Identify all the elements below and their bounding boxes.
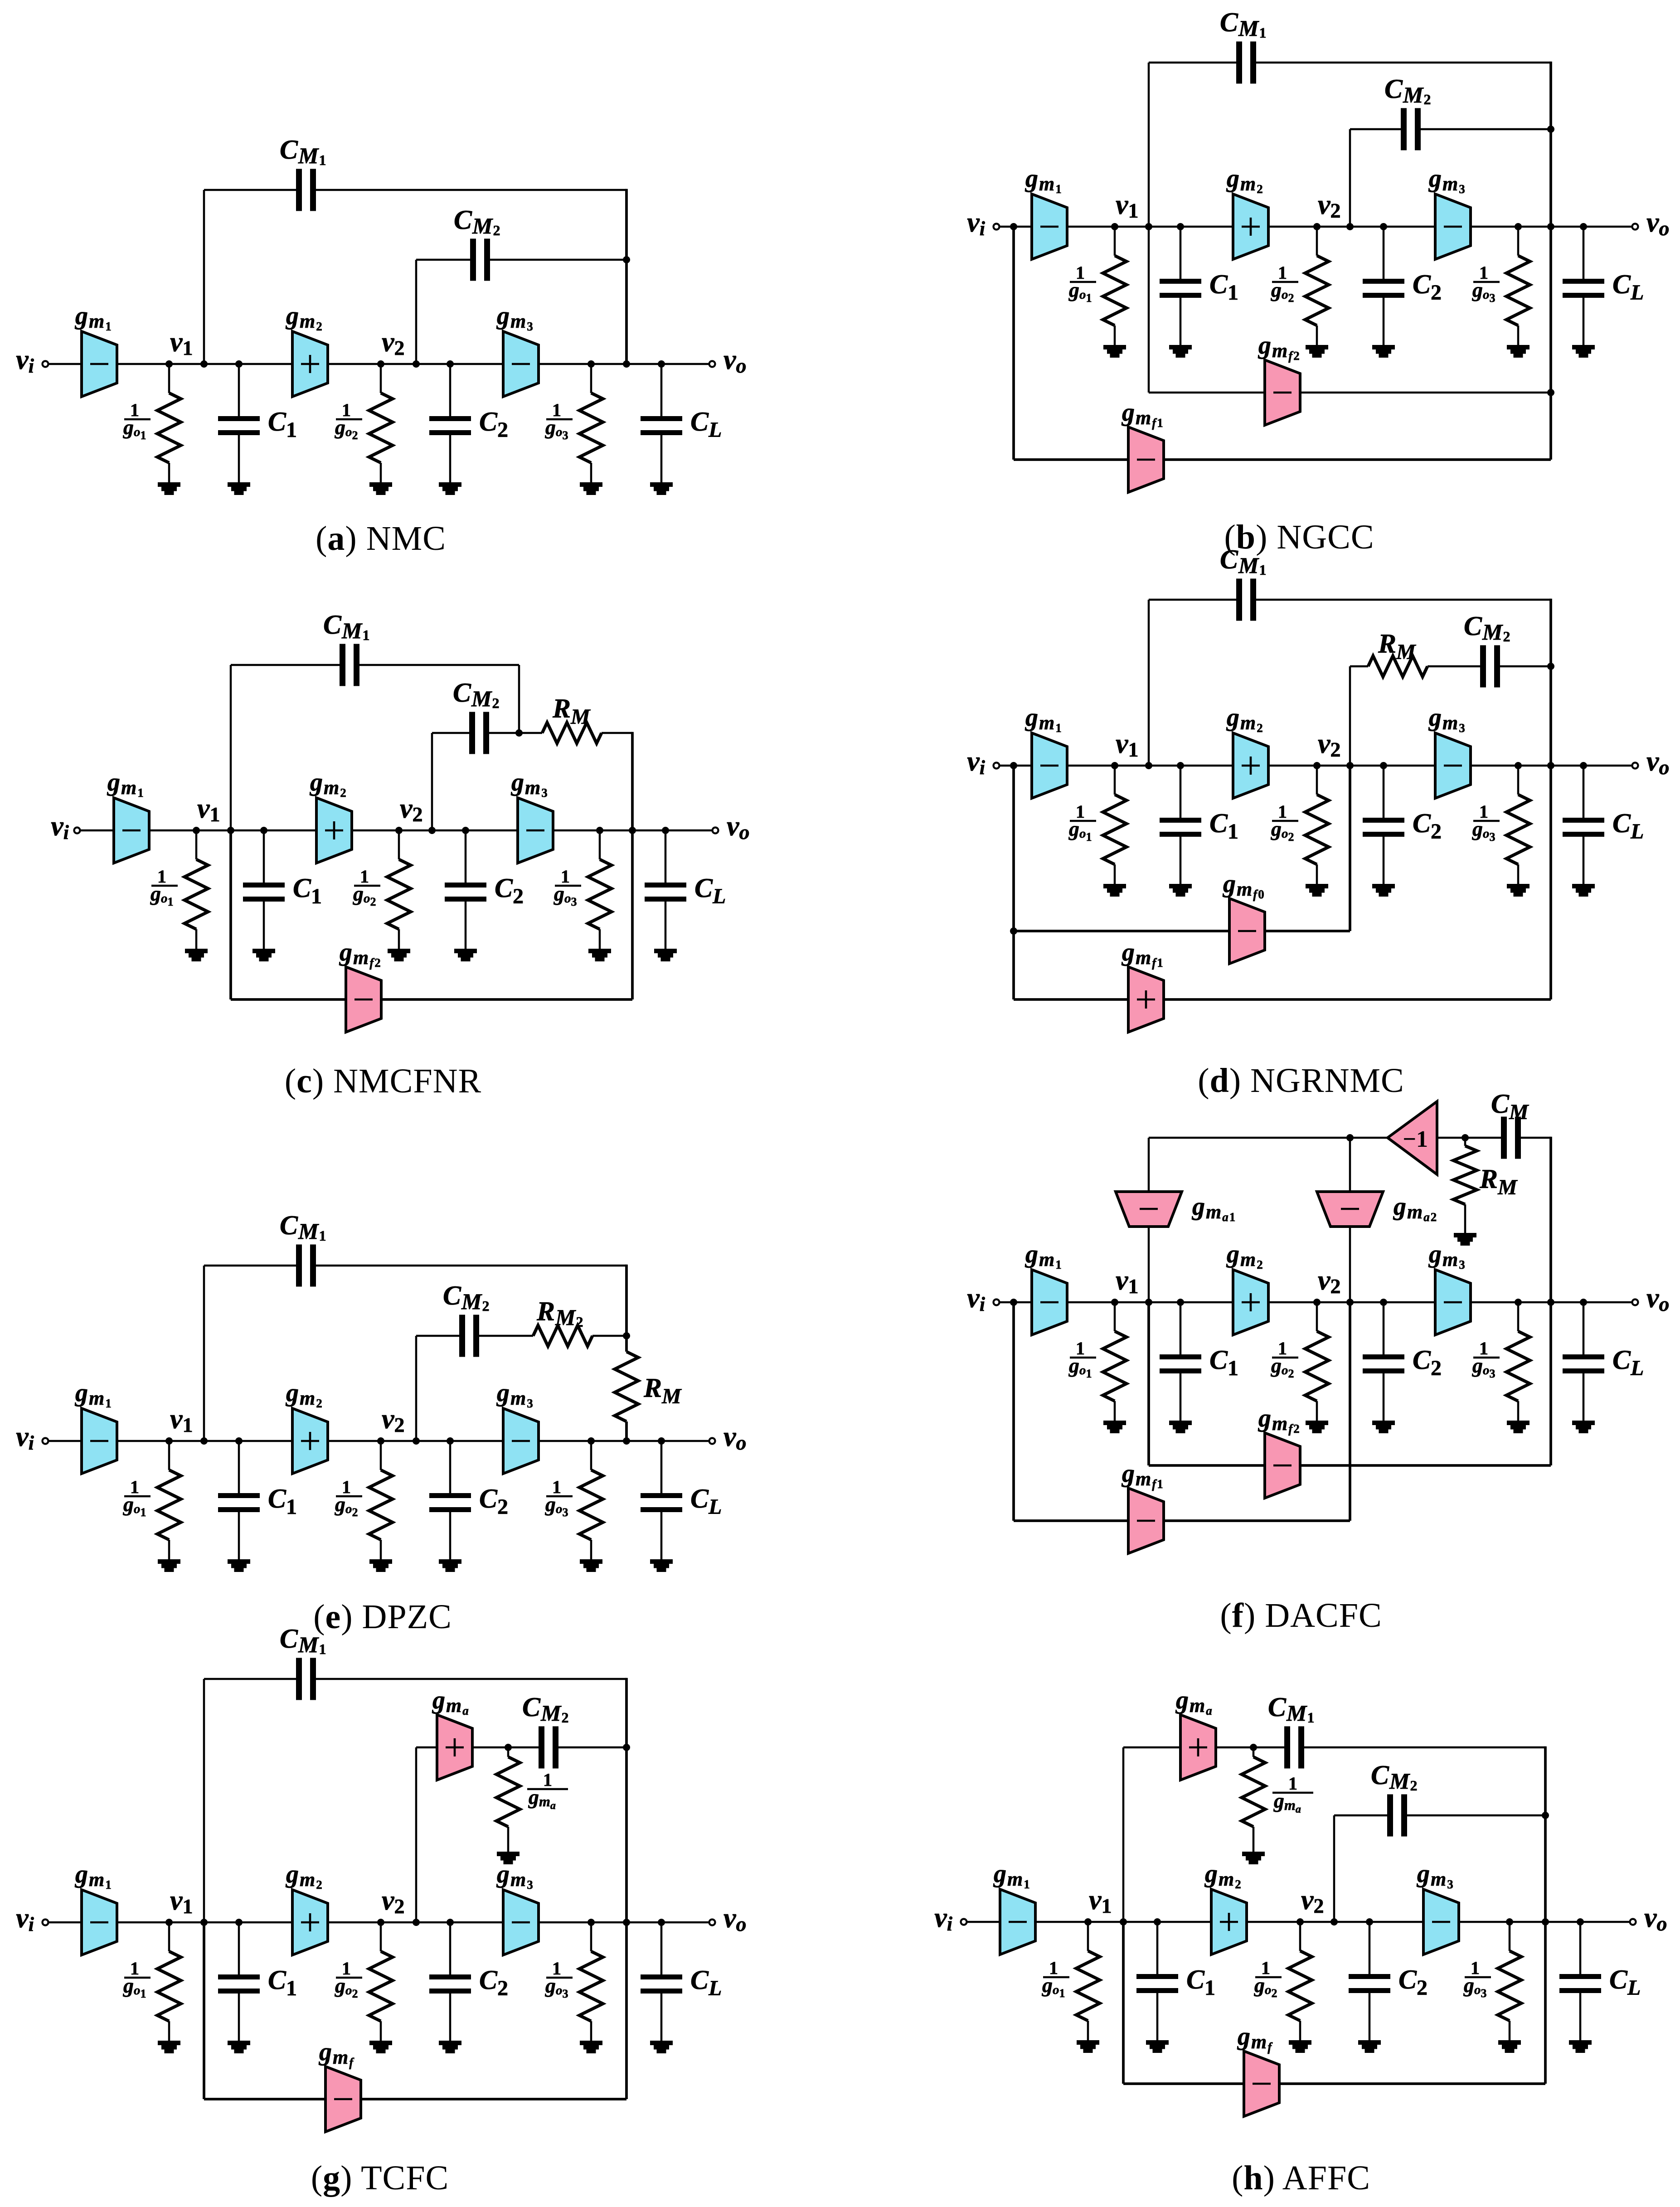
panel f: op-amp gm1	[1032, 1270, 1067, 1335]
panel b: resistor 1/go2	[1305, 227, 1329, 358]
panel e: label RM	[643, 1373, 682, 1408]
panel d: resistor 1/go1	[1103, 766, 1126, 897]
panel a: label C2	[479, 407, 508, 442]
panel g: node v2	[377, 1919, 384, 1926]
panel a: CM2 wire left	[416, 259, 470, 261]
panel g: capacitor C1	[218, 1922, 260, 2053]
panel a: CM2 wire right	[490, 259, 626, 261]
panel c: label CM2	[453, 678, 500, 711]
panel f: junction gma2 stub	[1346, 1299, 1354, 1306]
panel d: RM wire left stub	[1350, 665, 1368, 668]
svg-text:(b) NGCC: (b) NGCC	[1224, 518, 1374, 556]
panel h: node v1	[1084, 1918, 1092, 1926]
panel a: label 1/go2	[335, 400, 362, 442]
panel f: node v2	[1313, 1299, 1321, 1306]
panel d: label v2	[1318, 728, 1341, 761]
panel a: capacitor C2	[429, 364, 471, 495]
panel d: junction C2	[1380, 762, 1387, 769]
panel b: label CM1	[1220, 7, 1267, 41]
panel g: junction CM2 right	[623, 1744, 630, 1751]
panel h: label CL	[1609, 1964, 1641, 2000]
panel f: right vertical	[1549, 1137, 1552, 1465]
panel e: junction RM main	[623, 1437, 630, 1445]
panel h: resistor 1/gma	[1242, 1747, 1265, 1864]
panel d: gmf0 feedback wire	[1014, 930, 1350, 932]
panel d: CM1 top wire left	[1149, 599, 1236, 601]
panel b: junction CM1 stub	[1145, 223, 1152, 230]
panel e: junction RM2-RM	[623, 1332, 630, 1339]
panel d: junction go3	[1515, 762, 1522, 769]
panel d: resistor 1/go2	[1305, 766, 1329, 897]
panel h: capacitor C2	[1349, 1922, 1390, 2053]
panel b: junction C1	[1177, 223, 1184, 230]
panel h: caption	[1232, 2159, 1370, 2197]
panel g: resistor 1/go3	[579, 1922, 603, 2053]
panel d: junction RM vertical	[1346, 762, 1354, 769]
panel f: label gm3	[1428, 1240, 1466, 1271]
panel g: label 1/go2	[335, 1958, 362, 2000]
panel b: junction CM2 stub	[1346, 223, 1354, 230]
panel f: resistor 1/go3	[1506, 1302, 1530, 1433]
panel h: capacitor CM2	[1387, 1795, 1407, 1837]
panel f: main wire vi to vo	[996, 1301, 1635, 1304]
panel c: label C2	[495, 873, 524, 908]
panel d: label gmf1	[1121, 938, 1164, 970]
panel h: label v2	[1301, 1885, 1324, 1917]
panel e: label RM2	[536, 1296, 584, 1330]
panel c: op-amp gm2	[316, 798, 352, 863]
panel h: left vertical lower	[1122, 1922, 1125, 2084]
panel f: triangle to RM node	[1437, 1137, 1501, 1139]
panel h: junction go3	[1506, 1918, 1513, 1926]
panel g: CM1 top wire right	[316, 1678, 626, 1680]
panel f: label CM	[1491, 1089, 1529, 1124]
panel f: junction feedback main	[1547, 1299, 1554, 1306]
panel e: capacitor C2	[429, 1441, 471, 1572]
panel g: node v1	[165, 1919, 173, 1926]
panel f: RM hang wire	[1464, 1138, 1466, 1233]
panel c: op-amp gm1	[114, 798, 149, 863]
panel g: op-amp gm2	[292, 1890, 328, 1955]
panel d: label 1/go1	[1068, 801, 1096, 844]
panel b: junction C2	[1380, 223, 1387, 230]
panel c: node v2	[395, 827, 403, 834]
panel a: CM1 top wire left	[204, 189, 296, 191]
panel g: label v1	[170, 1885, 193, 1918]
panel d: output terminal vo	[1632, 763, 1638, 769]
panel c: label vo	[727, 811, 750, 844]
panel e: label 1/go2	[335, 1477, 362, 1519]
panel a: output terminal vo	[709, 361, 715, 367]
panel g: junction CM1 stub	[200, 1919, 208, 1926]
panel b: op-amp gm3	[1435, 194, 1471, 259]
panel a: label vo	[723, 344, 747, 377]
panel e: junction go3	[588, 1437, 595, 1445]
panel f: gmf2 feedback wire	[1149, 1464, 1551, 1467]
panel a: input terminal vi	[43, 361, 49, 367]
panel f: capacitor C2	[1363, 1302, 1404, 1433]
panel d: junction C1	[1177, 762, 1184, 769]
panel c: label CM1	[323, 610, 370, 643]
panel e: resistor 1/go3	[579, 1441, 603, 1572]
panel d: resistor 1/go3	[1506, 766, 1530, 897]
panel f: label gmf2	[1258, 1404, 1301, 1436]
panel a: capacitor C1	[218, 364, 260, 495]
panel e: CM1 top wire left	[204, 1265, 296, 1267]
panel f: input terminal vi	[994, 1300, 1000, 1305]
panel h: main wire vi to vo	[964, 1921, 1633, 1923]
panel e: resistor 1/go2	[369, 1441, 393, 1572]
panel f: label vi	[967, 1283, 986, 1315]
panel f: junction gma1 stub	[1145, 1299, 1152, 1306]
panel d: CM2 right wire	[1500, 665, 1551, 668]
panel e: main wire vi to vo	[45, 1440, 712, 1442]
panel h: label 1/go1	[1042, 1958, 1069, 2000]
panel a: resistor 1/go1	[157, 364, 181, 495]
panel c: junction CL	[662, 827, 669, 834]
panel c: label CL	[694, 873, 726, 908]
panel d: main wire vi to vo	[996, 765, 1635, 767]
panel e: output terminal vo	[709, 1438, 715, 1444]
panel b: label 1/go1	[1068, 262, 1096, 305]
panel e: label vi	[16, 1421, 34, 1454]
panel e: CM2 left stub	[415, 1336, 418, 1441]
panel c: label 1/go2	[353, 866, 380, 908]
panel c: feedforward amp gmf2	[346, 967, 381, 1032]
panel f: gma2 vertical	[1349, 1138, 1351, 1302]
panel c: capacitor CM1	[340, 644, 359, 686]
panel d: label v1	[1116, 728, 1139, 761]
panel f: capacitor CL	[1563, 1302, 1604, 1433]
panel e: capacitor CM2	[459, 1315, 479, 1357]
panel b: caption	[1224, 518, 1374, 556]
panel d: feedforward amp gmf0	[1229, 898, 1265, 964]
panel f: label gma1	[1191, 1193, 1236, 1224]
panel g: CM1 left vertical lower	[203, 1922, 205, 2099]
panel h: label gma	[1175, 1686, 1213, 1717]
panel b: label CM2	[1384, 74, 1432, 107]
panel b: junction gmf2 right	[1547, 389, 1554, 396]
panel c: label v1	[197, 793, 220, 826]
panel c: CM1 vertical at v1 stub	[230, 665, 232, 830]
svg-text:(f) DACFC: (f) DACFC	[1220, 1596, 1382, 1635]
panel c: junction CM2 stub	[428, 827, 436, 834]
panel d: node v2	[1313, 762, 1321, 769]
panel e: node v1	[165, 1437, 173, 1445]
panel b: junction vi feedback	[1010, 223, 1017, 230]
panel c: RM right vertical	[631, 732, 634, 830]
panel g: op-amp gm1	[82, 1890, 117, 1955]
panel f: feedforward amp gmf2	[1265, 1433, 1300, 1498]
panel d: label gmf0	[1222, 870, 1265, 901]
panel c: RM wire right	[602, 732, 632, 734]
panel d: junction CM1 stub	[1145, 762, 1152, 769]
panel b: label gmf1	[1121, 398, 1164, 430]
panel d: label C2	[1413, 808, 1442, 844]
panel g: junction gma stub	[413, 1919, 420, 1926]
panel e: label C1	[268, 1484, 297, 1519]
panel c: junction CM1 stub	[227, 827, 234, 834]
panel d: resistor RM	[1368, 656, 1428, 677]
panel b: label gm1	[1025, 165, 1063, 196]
panel f: aux amp gma1	[1116, 1192, 1182, 1227]
panel a: capacitor CM1	[296, 169, 316, 211]
panel c: output terminal vo	[713, 828, 719, 834]
panel b: label gmf2	[1258, 331, 1301, 363]
panel g: output terminal vo	[709, 1920, 715, 1926]
panel f: junction go3	[1515, 1299, 1522, 1306]
panel a: label v1	[170, 327, 193, 359]
panel e: label v2	[382, 1404, 405, 1436]
panel g: input terminal vi	[43, 1920, 49, 1926]
panel g: label gm2	[285, 1860, 323, 1892]
panel g: gma wire mid	[472, 1746, 539, 1749]
panel d: label 1/go2	[1271, 801, 1298, 844]
svg-text:(d) NGRNMC: (d) NGRNMC	[1198, 1062, 1404, 1100]
panel f: gma1 vertical lower	[1147, 1302, 1150, 1465]
panel d: label CM1	[1220, 544, 1267, 578]
panel a: label 1/go3	[545, 400, 573, 442]
panel g: label CM1	[280, 1624, 327, 1657]
panel f: gma2 vertical lower	[1349, 1302, 1351, 1521]
panel b: CM2 wire left	[1350, 128, 1401, 131]
panel f: top wire to triangle	[1350, 1137, 1388, 1139]
panel f: label gm2	[1226, 1240, 1264, 1271]
panel f: top wire left	[1149, 1137, 1350, 1139]
panel h: CM1 right wire	[1304, 1746, 1545, 1749]
panel c: label C1	[293, 873, 322, 908]
panel e: CM1 top wire right	[316, 1265, 626, 1267]
panel a: label gm3	[496, 302, 534, 333]
panel f: CM right wire	[1521, 1137, 1551, 1139]
panel e: label CL	[690, 1484, 722, 1519]
panel d: CM1 top wire right	[1256, 599, 1551, 601]
panel b: capacitor CL	[1563, 227, 1604, 358]
panel f: label v1	[1116, 1265, 1139, 1298]
panel a: label gm1	[74, 302, 112, 333]
panel g: right vertical	[625, 1678, 628, 2099]
panel a: node v2	[377, 360, 384, 368]
panel d: label vi	[967, 746, 986, 779]
panel f: label CL	[1612, 1345, 1644, 1380]
panel d: op-amp gm1	[1032, 733, 1067, 798]
panel f: capacitor CM	[1501, 1117, 1521, 1159]
panel a: label CM1	[280, 135, 327, 168]
panel g: junction gma out	[505, 1744, 512, 1751]
svg-text:1: 1	[543, 1770, 552, 1790]
panel c: resistor 1/go1	[185, 830, 208, 961]
panel h: CM2 stub	[1333, 1815, 1335, 1922]
panel d: capacitor CL	[1563, 766, 1604, 897]
panel c: CM2 wire left	[432, 732, 469, 734]
panel b: label vo	[1646, 207, 1670, 240]
panel f: junction vi feedback	[1010, 1299, 1017, 1306]
panel d: label CM2	[1464, 611, 1511, 645]
panel e: label 1/go1	[123, 1477, 151, 1519]
panel f: label 1/go3	[1472, 1338, 1500, 1380]
panel h: CM2 wire left	[1334, 1814, 1387, 1817]
panel b: CM1 top wire left	[1149, 62, 1236, 64]
panel a: op-amp gm2	[292, 331, 328, 397]
panel g: main wire vi to vo	[45, 1921, 712, 1924]
panel g: CM1 left vertical	[203, 1679, 205, 1922]
panel d: right vertical	[1549, 599, 1552, 999]
panel b: input terminal vi	[994, 224, 1000, 230]
panel h: label C1	[1186, 1964, 1215, 2000]
panel d: gmf0 vertical right	[1349, 766, 1351, 931]
panel g: label gm3	[496, 1860, 534, 1892]
panel f: inverting amp -1 triangle	[1388, 1101, 1437, 1174]
panel d: feedforward amp gmf1	[1128, 967, 1164, 1032]
panel e: input terminal vi	[43, 1438, 49, 1444]
panel b: capacitor CM2	[1401, 108, 1421, 150]
svg-text:−1: −1	[1403, 1126, 1428, 1152]
panel b: label C2	[1413, 269, 1442, 305]
panel e: label vo	[723, 1421, 747, 1454]
panel a: junction CM1 stub	[200, 360, 208, 368]
panel f: gmf1 feedback wire	[1014, 1519, 1350, 1522]
panel c: label RM	[552, 694, 591, 729]
panel f: ground RM	[1454, 1233, 1476, 1246]
panel a: capacitor CL	[641, 364, 682, 495]
panel b: output terminal vo	[1632, 224, 1638, 230]
panel c: junction C1	[260, 827, 267, 834]
panel d: junction CL	[1580, 762, 1587, 769]
panel c: op-amp gm3	[518, 798, 553, 863]
panel c: capacitor CM2	[469, 712, 489, 754]
panel a: op-amp gm3	[503, 331, 539, 397]
panel e: capacitor C1	[218, 1441, 260, 1572]
svg-text:(c) NMCFNR: (c) NMCFNR	[285, 1062, 481, 1100]
panel d: gmf0 vertical left	[1012, 766, 1015, 999]
panel b: label 1/go3	[1472, 262, 1500, 305]
panel b: label v2	[1318, 189, 1341, 222]
panel g: CM2 right wire	[558, 1746, 626, 1749]
panel e: junction CL	[658, 1437, 665, 1445]
panel e: junction CM2 stub	[413, 1437, 420, 1445]
panel e: label gm1	[74, 1379, 112, 1410]
panel g: junction C1	[235, 1919, 243, 1926]
panel g: gma stub	[415, 1747, 418, 1922]
panel b: resistor 1/go1	[1103, 227, 1126, 358]
panel h: aux amp gma	[1180, 1715, 1216, 1780]
panel f: caption	[1220, 1596, 1382, 1635]
panel e: RM2 right wire	[592, 1335, 626, 1337]
panel h: label vi	[934, 1902, 953, 1935]
panel e: caption	[313, 1598, 452, 1636]
panel b: label gm2	[1226, 165, 1264, 196]
panel a: capacitor CM2	[470, 239, 490, 281]
panel h: label CM1	[1268, 1692, 1315, 1726]
panel h: gma wire left	[1123, 1746, 1180, 1749]
panel a: main wire vi to vo	[45, 363, 712, 365]
panel c: gmf2 feedback wire	[231, 998, 632, 1001]
panel f: label 1/go1	[1068, 1338, 1096, 1380]
panel c: caption	[285, 1062, 481, 1100]
panel c: gmf2 vertical left	[229, 830, 232, 999]
panel d: label vo	[1646, 746, 1670, 779]
panel b: CM1 top wire right	[1256, 62, 1551, 64]
panel f: label RM	[1479, 1164, 1518, 1199]
panel h: label CM2	[1371, 1760, 1418, 1794]
panel b: gmf1 vertical left	[1012, 227, 1015, 460]
panel c: label gm1	[107, 768, 145, 800]
panel b: capacitor CM1	[1236, 42, 1256, 84]
panel e: capacitor CM1	[296, 1245, 316, 1287]
panel d: CM1 vertical stub	[1148, 600, 1150, 766]
panel g: capacitor C2	[429, 1922, 471, 2053]
panel h: capacitor CL	[1559, 1922, 1601, 2053]
panel b: junction go3	[1515, 223, 1522, 230]
panel d: op-amp gm3	[1435, 733, 1471, 798]
panel h: input terminal vi	[961, 1919, 967, 1925]
panel h: junction CM2 stub	[1330, 1918, 1338, 1926]
svg-text:1: 1	[1288, 1773, 1297, 1794]
panel a: CM1 left stub	[203, 190, 205, 364]
panel b: CM2 wire right	[1421, 128, 1551, 131]
panel d: node v1	[1111, 762, 1118, 769]
panel e: CM1 right vertical	[625, 1265, 628, 1336]
panel g: label gm1	[74, 1860, 112, 1892]
panel h: op-amp gm2	[1211, 1889, 1247, 1955]
panel d: op-amp gm2	[1233, 733, 1268, 798]
panel c: label vi	[51, 811, 69, 844]
panel e: label 1/go3	[545, 1477, 573, 1519]
panel e: CM1 left stub	[203, 1266, 205, 1441]
panel h: resistor 1/go3	[1498, 1922, 1521, 2053]
panel h: junction left vertical	[1120, 1918, 1127, 1926]
panel c: junction RM vertical	[629, 827, 636, 834]
panel b: main wire vi to vo	[996, 226, 1635, 228]
svg-text:(h) AFFC: (h) AFFC	[1232, 2159, 1370, 2197]
panel d: junction CM2 right	[1547, 663, 1554, 670]
panel f: label C2	[1413, 1345, 1442, 1380]
panel b: CM2 vertical stub	[1349, 129, 1351, 227]
panel b: label C1	[1209, 269, 1238, 305]
panel e: junction CM1 stub	[200, 1437, 208, 1445]
panel e: op-amp gm3	[503, 1408, 539, 1474]
panel g: capacitor CM2	[539, 1727, 558, 1769]
panel g: label C1	[268, 1965, 297, 2000]
panel b: label 1/go2	[1271, 262, 1298, 305]
panel c: main wire vi to vo	[77, 829, 715, 832]
panel d: caption	[1198, 1062, 1404, 1100]
svg-text:(g) TCFC: (g) TCFC	[311, 2159, 449, 2197]
panel g: junction CL	[658, 1919, 665, 1926]
panel h: label C2	[1398, 1964, 1428, 2000]
panel f: resistor 1/go1	[1103, 1302, 1126, 1433]
panel b: gmf1 feedback wire	[1014, 458, 1551, 461]
panel c: junction C2	[462, 827, 469, 834]
panel c: label gm3	[510, 768, 549, 800]
svg-text:(e) DPZC: (e) DPZC	[313, 1598, 452, 1636]
panel g: aux amp gma	[437, 1715, 472, 1780]
panel e: label C2	[479, 1484, 508, 1519]
panel f: feedforward amp gmf1	[1128, 1488, 1164, 1553]
panel a: junction go3	[588, 360, 595, 368]
panel c: resistor RM	[542, 723, 602, 743]
panel h: output terminal vo	[1630, 1919, 1636, 1925]
panel e: CM2 wire left	[416, 1335, 459, 1337]
panel b: label vi	[967, 207, 986, 240]
panel b: node v1	[1111, 223, 1118, 230]
panel f: label gma2	[1393, 1193, 1437, 1224]
panel a: label v2	[382, 327, 405, 359]
panel g: junction go3	[588, 1919, 595, 1926]
panel h: label 1/go3	[1463, 1958, 1491, 2000]
panel d: label 1/go3	[1472, 801, 1500, 844]
panel e: CM2 to RM2 wire	[479, 1335, 533, 1337]
